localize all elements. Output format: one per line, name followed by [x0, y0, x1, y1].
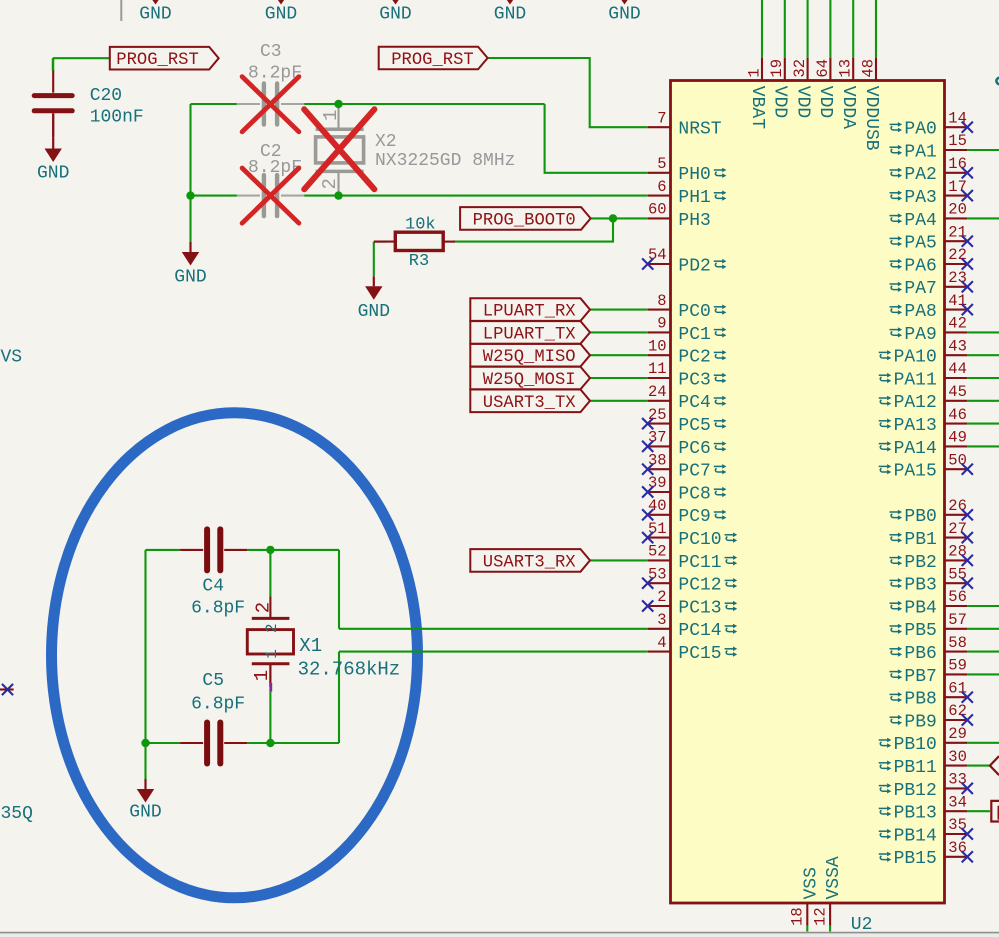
svg-text:6.8pF: 6.8pF [191, 599, 245, 619]
svg-text:GND: GND [129, 803, 161, 823]
svg-text:PC1: PC1 [678, 325, 710, 345]
svg-text:PC3: PC3 [678, 370, 710, 390]
svg-text:PB7: PB7 [904, 667, 936, 687]
svg-text:32: 32 [791, 59, 809, 78]
svg-text:PC4: PC4 [678, 393, 710, 413]
svg-text:X2: X2 [375, 132, 397, 152]
svg-text:32.768kHz: 32.768kHz [298, 659, 401, 681]
svg-text:PH3: PH3 [678, 211, 710, 231]
svg-text:12: 12 [811, 907, 829, 926]
svg-text:NRST: NRST [678, 120, 721, 140]
svg-text:64: 64 [814, 59, 832, 78]
svg-text:PA7: PA7 [904, 279, 936, 299]
svg-text:10k: 10k [405, 216, 436, 235]
svg-text:PB1: PB1 [904, 530, 936, 550]
svg-text:GND: GND [379, 5, 411, 25]
svg-text:34: 34 [948, 793, 967, 811]
svg-text:2: 2 [657, 588, 666, 606]
svg-text:VDD: VDD [770, 86, 790, 118]
svg-text:PB13: PB13 [894, 804, 937, 824]
svg-text:PA9: PA9 [904, 325, 936, 345]
svg-text:VDD: VDD [815, 86, 835, 118]
svg-text:PA1: PA1 [904, 142, 936, 162]
svg-text:PC2: PC2 [678, 348, 710, 368]
svg-text:PC5: PC5 [678, 416, 710, 436]
svg-text:PB8: PB8 [904, 690, 936, 710]
svg-text:60: 60 [648, 201, 667, 219]
svg-text:PB0: PB0 [904, 507, 936, 527]
svg-text:PA0: PA0 [904, 120, 936, 140]
svg-text:2: 2 [253, 602, 275, 613]
svg-text:PA15: PA15 [894, 462, 937, 482]
svg-text:18: 18 [789, 907, 807, 926]
svg-text:VDDUSB: VDDUSB [861, 86, 881, 151]
svg-text:PC9: PC9 [678, 507, 710, 527]
svg-text:PA14: PA14 [894, 439, 937, 459]
svg-text:GND: GND [37, 164, 69, 184]
svg-text:7: 7 [657, 109, 666, 127]
svg-text:PC12: PC12 [678, 576, 721, 596]
svg-text:PA11: PA11 [894, 370, 937, 390]
svg-text:10: 10 [648, 337, 667, 355]
svg-text:PD2: PD2 [678, 256, 710, 276]
svg-text:1: 1 [251, 670, 273, 681]
svg-text:1: 1 [320, 110, 342, 121]
svg-text:PA13: PA13 [894, 416, 937, 436]
svg-text:PA12: PA12 [894, 393, 937, 413]
svg-text:43: 43 [948, 337, 967, 355]
svg-text:C3: C3 [260, 42, 282, 62]
svg-text:6: 6 [657, 178, 666, 196]
svg-text:PB3: PB3 [904, 576, 936, 596]
svg-text:C5: C5 [202, 671, 224, 691]
svg-text:C4: C4 [202, 577, 224, 597]
svg-text:PC11: PC11 [678, 553, 721, 573]
svg-text:VS: VS [1, 348, 23, 368]
svg-text:19: 19 [768, 59, 786, 78]
svg-text:44: 44 [948, 360, 967, 378]
svg-text:VSSA: VSSA [824, 856, 844, 899]
svg-text:VDD: VDD [792, 86, 812, 118]
svg-text:PC14: PC14 [678, 621, 721, 641]
svg-text:1: 1 [745, 68, 763, 77]
svg-text:56: 56 [948, 588, 967, 606]
svg-text:GND: GND [265, 5, 297, 25]
svg-text:W25Q_MISO: W25Q_MISO [483, 348, 576, 367]
svg-text:PA6: PA6 [904, 256, 936, 276]
svg-text:PB12: PB12 [894, 781, 937, 801]
svg-text:6.8pF: 6.8pF [191, 694, 245, 714]
svg-text:PC13: PC13 [678, 598, 721, 618]
svg-text:W25Q_MOSI: W25Q_MOSI [483, 371, 576, 390]
svg-text:PROG_BOOT0: PROG_BOOT0 [473, 211, 576, 230]
svg-text:PB11: PB11 [894, 758, 937, 778]
svg-text:45: 45 [948, 383, 967, 401]
svg-text:46: 46 [948, 406, 967, 424]
svg-text:100nF: 100nF [90, 108, 144, 128]
svg-text:9: 9 [657, 315, 666, 333]
svg-text:PA4: PA4 [904, 211, 936, 231]
svg-text:PA5: PA5 [904, 234, 936, 254]
svg-text:C20: C20 [90, 86, 122, 106]
svg-text:PB14: PB14 [894, 826, 937, 846]
svg-text:PC7: PC7 [678, 462, 710, 482]
svg-text:PROG_RST: PROG_RST [116, 51, 199, 70]
svg-text:8: 8 [657, 292, 666, 310]
svg-text:5: 5 [657, 155, 666, 173]
svg-text:PA3: PA3 [904, 188, 936, 208]
svg-text:VDDA: VDDA [838, 86, 858, 129]
svg-text:USART3_TX: USART3_TX [483, 394, 577, 413]
svg-text:X1: X1 [299, 635, 322, 657]
svg-text:GND: GND [494, 5, 526, 25]
svg-text:PC8: PC8 [678, 484, 710, 504]
svg-text:PC6: PC6 [678, 439, 710, 459]
svg-text:59: 59 [948, 657, 967, 675]
svg-text:2: 2 [319, 178, 341, 189]
svg-text:4: 4 [657, 634, 666, 652]
svg-text:GND: GND [358, 302, 390, 322]
svg-text:VBAT: VBAT [747, 86, 767, 129]
svg-text:GND: GND [139, 5, 171, 25]
svg-text:3: 3 [657, 611, 666, 629]
svg-text:PB9: PB9 [904, 712, 936, 732]
svg-text:VSS: VSS [801, 867, 821, 899]
svg-text:29: 29 [948, 725, 967, 743]
svg-text:30: 30 [948, 748, 967, 766]
svg-text:LPUART_RX: LPUART_RX [483, 303, 577, 322]
svg-text:35Q: 35Q [1, 804, 33, 824]
svg-text:58: 58 [948, 634, 967, 652]
svg-text:11: 11 [648, 360, 667, 378]
svg-text:PB4: PB4 [904, 598, 936, 618]
svg-text:PA10: PA10 [894, 348, 937, 368]
svg-text:42: 42 [948, 315, 967, 333]
svg-text:52: 52 [648, 543, 667, 561]
svg-text:57: 57 [948, 611, 967, 629]
svg-text:PH0: PH0 [678, 165, 710, 185]
svg-text:48: 48 [859, 59, 877, 78]
svg-text:PB15: PB15 [894, 849, 937, 869]
svg-text:GND: GND [608, 5, 640, 25]
svg-text:PB5: PB5 [904, 621, 936, 641]
svg-text:49: 49 [948, 429, 967, 447]
svg-text:13: 13 [837, 59, 855, 78]
svg-text:PC15: PC15 [678, 644, 721, 664]
svg-text:1: 1 [263, 649, 281, 659]
svg-text:R3: R3 [409, 252, 429, 271]
svg-text:GND: GND [174, 268, 206, 288]
svg-text:PC0: PC0 [678, 302, 710, 322]
svg-text:PC10: PC10 [678, 530, 721, 550]
svg-text:USART3_RX: USART3_RX [483, 553, 577, 572]
svg-text:15: 15 [948, 132, 967, 150]
svg-text:PB10: PB10 [894, 735, 937, 755]
svg-text:NX3225GD 8MHz: NX3225GD 8MHz [375, 151, 515, 171]
svg-text:2: 2 [263, 623, 281, 633]
svg-text:PA2: PA2 [904, 165, 936, 185]
svg-text:20: 20 [948, 201, 967, 219]
svg-text:LPUART_TX: LPUART_TX [483, 325, 577, 344]
svg-text:PB2: PB2 [904, 553, 936, 573]
svg-text:PH1: PH1 [678, 188, 710, 208]
svg-text:24: 24 [648, 383, 667, 401]
svg-text:PA8: PA8 [904, 302, 936, 322]
svg-text:PROG_RST: PROG_RST [391, 51, 474, 70]
svg-text:PB6: PB6 [904, 644, 936, 664]
